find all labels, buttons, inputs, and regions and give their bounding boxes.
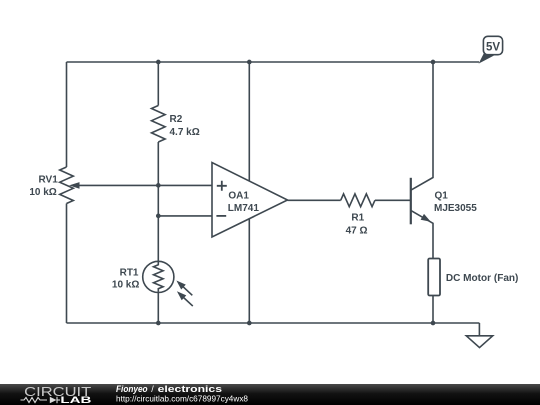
CircuitLab banner [0,384,540,405]
node dot bottom rail / motor [431,321,436,326]
5V supply flag [479,36,503,63]
wire left rail (from RV1 bottom to bottom rail) [66,204,68,324]
wire inverting input (node at x158 to op-amp) [158,215,211,217]
svg-text:http://circuitlab.com/c678997c: http://circuitlab.com/c678997cy4wx8 [116,394,248,404]
ground symbol [466,336,492,348]
svg-text:R2: R2 [170,114,183,125]
wire R2 bottom to RT1 top [157,142,159,261]
wire op-amp V- pin to bottom rail [248,219,250,323]
photoresistor RT1 zigzag [154,262,164,292]
svg-text:OA1: OA1 [228,190,249,201]
wire R2/RT1 vertical: top rail to R2 [157,62,159,106]
transistor Q1 base bar [410,178,412,225]
wire top rail (5V net) [67,61,480,63]
svg-text:Q1: Q1 [435,191,449,202]
wire op-amp output to R1 [288,199,341,201]
svg-text:R1: R1 [351,213,364,224]
svg-text:10 kΩ: 10 kΩ [112,280,139,291]
node dot top rail / R2 [156,60,161,65]
motor M1 body (DC Motor box) [428,259,440,296]
RT1 light arrow 2 [177,291,193,306]
node dot top rail / op-amp V+ [247,60,252,65]
photoresistor RT1 circle [143,261,174,292]
resistor R1 body [341,194,375,207]
wire op-amp V+ pin to top rail [248,62,250,181]
wire left rail (from top rail to RV1 top) [66,62,68,167]
svg-text:4.7 kΩ: 4.7 kΩ [170,127,200,138]
svg-text:47 Ω: 47 Ω [346,226,368,237]
svg-text:electronics: electronics [158,384,222,394]
svg-text:RT1: RT1 [120,267,139,278]
svg-text:RV1: RV1 [39,175,59,186]
CircuitLab logo zigzag and diode [21,397,61,403]
op-amp OA1 plus symbol [217,181,227,191]
wire RT1 bottom to bottom rail [157,293,159,324]
op-amp OA1 triangle [212,163,288,238]
op-amp OA1 minus symbol [216,215,226,217]
transistor Q1 emitter lead with arrow [411,210,433,258]
wire bottom rail (ground net) [67,322,480,324]
RT1 light arrow 1 [176,281,192,296]
transistor Q1 collector lead [411,62,433,190]
node dot noninverting input [156,183,161,188]
svg-text:10 kΩ: 10 kΩ [29,187,56,198]
svg-text:LAB: LAB [60,395,91,405]
svg-text:5V: 5V [486,41,500,53]
svg-text:LM741: LM741 [228,203,260,214]
node dot bottom rail / RT1 [156,321,161,326]
svg-text:DC Motor (Fan): DC Motor (Fan) [446,273,519,284]
wire R1 to Q1 base [375,199,410,201]
wire ground stub [478,323,480,336]
svg-text:Fionyeo: Fionyeo [116,384,148,394]
node dot bottom rail / op-amp V- [247,321,252,326]
RV1 wiper arrow [69,182,211,189]
resistor R2 body [152,106,166,143]
node dot top rail / Q1 collector [431,60,436,65]
svg-text:MJE3055: MJE3055 [434,203,477,214]
potentiometer RV1 body [60,167,74,204]
wire motor bottom to bottom rail [432,296,434,324]
node dot inverting input [156,214,161,219]
